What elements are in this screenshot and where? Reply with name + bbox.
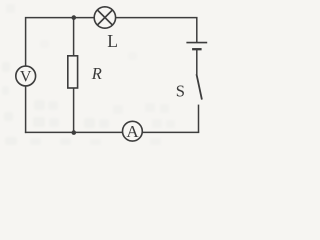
wire: left vertical below voltmeter [25,86,27,133]
lamp L [94,7,115,28]
node: top junction [72,15,77,20]
wire: top-right horizontal (lamp to corner) and down to battery [116,18,197,42]
switch S blade [197,74,202,99]
wire: bottom-right horizontal (ammeter to switch contact) [142,131,199,133]
svg-text:V: V [20,68,32,85]
wire: lower switch contact vertical [198,105,200,133]
svg-text:A: A [126,122,139,141]
svg-text:R: R [91,64,102,83]
resistor R [68,56,78,88]
wire: top-left horizontal (corner to lamp) [26,18,95,67]
battery: long positive plate [186,42,207,44]
wire: middle branch lower (resistor to node) [73,88,75,132]
wire: middle branch upper (node to resistor) [73,18,75,56]
node: bottom junction [72,130,77,135]
wire: bottom-left horizontal (corner to ammeter) [25,131,123,133]
faint print-through smudges (decorative) [2,4,175,145]
svg-text:S: S [176,82,185,101]
voltmeter U: V [16,66,36,86]
wire: battery to switch pivot [196,50,198,75]
ammeter A [122,121,142,141]
svg-text:L: L [107,31,118,51]
battery: short negative plate [192,48,202,50]
